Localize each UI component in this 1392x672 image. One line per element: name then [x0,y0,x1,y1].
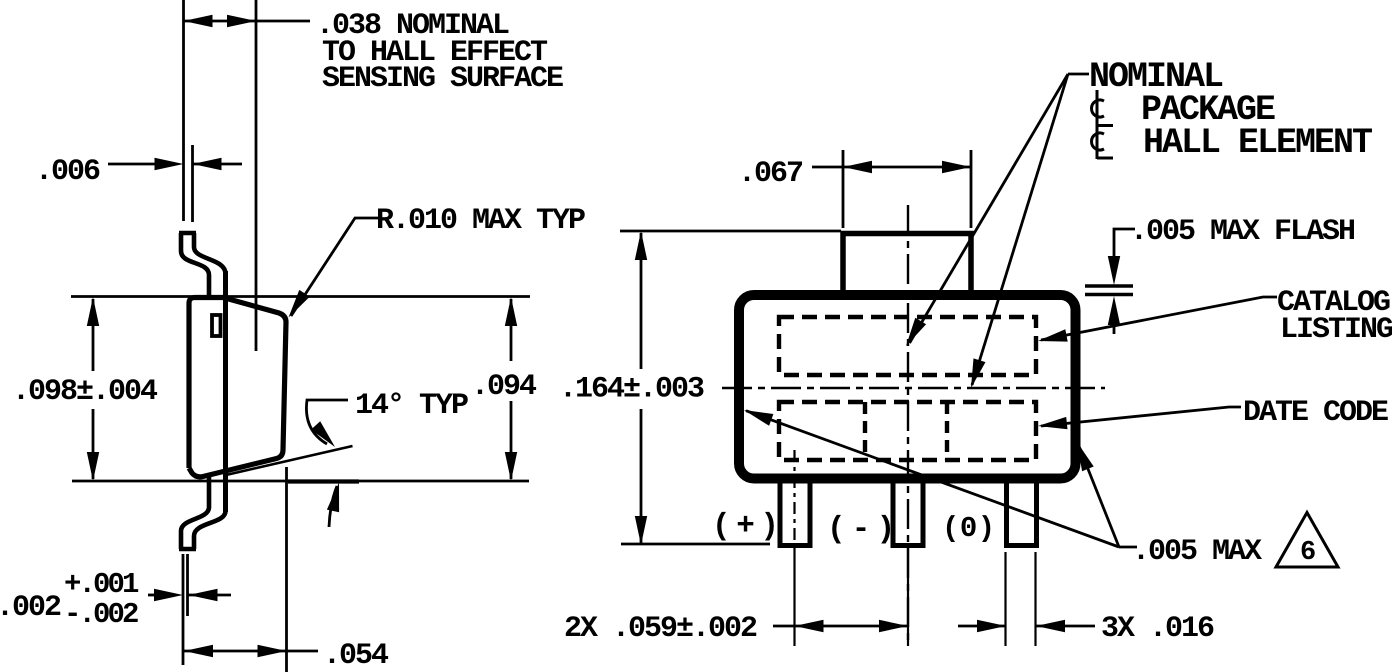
svg-text:HALL ELEMENT: HALL ELEMENT [1143,123,1372,163]
dimension line .038 [184,20,311,23]
arrowhead .006 right [193,158,222,170]
extension lines .067 [843,150,971,228]
arrowhead 14deg upper [311,421,335,447]
centerline hall element horizontal [722,387,1105,389]
package body outline (front view) [739,295,1076,479]
dimension line .094 lower [510,401,513,479]
arrowhead flash up [1108,296,1120,334]
arrowhead .005 left edge [744,410,773,426]
arrowhead .098 bottom [87,452,99,481]
leader catalog [1041,297,1277,340]
svg-text:2X .059±.002: 2X .059±.002 [564,612,757,646]
date code dashed box [779,402,1036,460]
dimension line .098 upper [92,299,95,371]
leader .005 junction [1119,546,1137,549]
arrowhead R.010 [289,290,310,318]
leader .005 to right corner [1079,445,1120,547]
extension line: lead left edge (top) [182,0,185,221]
svg-text:.067: .067 [738,157,802,191]
centerline symbol 1 [1092,90,1113,126]
lead bottom cap [179,547,196,552]
extension line lead right edge (bottom) [186,554,189,616]
package body outline (side view) [189,298,286,477]
arrowhead .164 top [635,231,647,260]
arrowhead .054 left [184,645,213,657]
extension line lead bottom [621,543,770,546]
svg-text:.005 MAX FLASH: .005 MAX FLASH [1130,215,1354,249]
extension line: hall sensing plane [255,0,258,351]
arrowhead 2X left [795,620,824,632]
dimension line 3X left tail [958,625,1006,628]
svg-text:.054: .054 [323,639,389,672]
dimension line .054 [184,650,318,653]
date code divider 2 [945,402,949,460]
lead top cap [179,231,196,236]
extension line: lead right edge (.006) [191,145,194,222]
dimension line 2X [795,625,909,628]
hall element marker rect [212,315,221,336]
svg-text:DATE CODE: DATE CODE [1243,396,1388,430]
lead top outer edge [181,233,209,300]
lead 2 (-) [893,481,923,546]
arrowhead .098 top [87,297,99,326]
extension line body bottom / seating [72,480,529,483]
lead 3 extension lines [1006,552,1036,646]
dimension line .098 lower [92,409,95,479]
svg-text:.098±.004: .098±.004 [12,375,158,409]
centerline package vertical [907,205,909,646]
mounting tab [843,234,971,292]
arrowhead .038 right [227,15,256,27]
arrowhead date code [1038,417,1068,429]
line 14deg face extension [226,446,353,475]
dimension line .006 right tail [193,163,243,166]
svg-text:.002: .002 [0,591,61,625]
arrowhead .002 left [154,589,183,601]
svg-text:.006: .006 [35,155,100,189]
arrowhead .094 bottom [505,452,517,481]
dimension line .164 lower [640,409,643,543]
arrowhead .006 left [155,158,184,170]
svg-text:(0): (0) [942,512,996,545]
svg-text:LISTING: LISTING [1280,313,1392,347]
svg-text:+.001: +.001 [64,568,139,601]
leader arc 14deg lower [329,486,337,527]
lead bottom outer edge [181,477,209,549]
dimension line .067 [812,166,971,169]
arrowhead flash down [1108,256,1120,285]
lead 1 centerline [793,450,795,646]
leader .005 to left edge [746,411,1119,547]
arrowhead 2X right [879,620,908,632]
lead 3 (0) [1007,481,1037,546]
arrowhead 14deg lower [327,483,339,513]
extension line body top [71,295,530,298]
extension line lead left edge (bottom) [182,554,185,665]
arrowhead .094 top [505,297,517,326]
dimension line 2X tail [773,625,795,628]
dimension line .006 left [108,163,156,166]
arrowhead .067 right [942,161,971,173]
arrowhead hall centerline [971,358,986,388]
arrowhead 3X left [977,620,1006,632]
arrowhead catalog [1038,329,1068,341]
dimension line 3X right tail [1036,625,1095,628]
arrowhead .164 bottom [635,516,647,545]
svg-text:( - ): ( - ) [827,512,891,547]
arrowhead .002 right [189,589,218,601]
arrowhead .054 right [258,645,287,657]
dimension line .164 upper [640,233,643,369]
centerline symbol 2 [1092,123,1113,159]
extension line tab top [620,230,841,233]
svg-text:SENSING SURFACE: SENSING SURFACE [322,62,563,96]
label .038 NOMINAL [316,9,563,96]
label .002 tolerance [0,568,139,631]
lead bottom inner edge [194,511,226,549]
flag triangle 6 [1276,513,1338,569]
leader NOMINAL junction [1068,73,1089,76]
extension line body right corner (bottom) [285,467,288,672]
lead 2 centerline extension [907,545,909,646]
leader NOMINAL to hall centerline [972,74,1068,385]
leader R.010 [291,218,378,316]
svg-text:-.002: -.002 [64,598,138,631]
dimension line .002 left [148,594,157,597]
arrowhead .067 left [843,161,872,173]
svg-text:.005 MAX: .005 MAX [1132,535,1262,569]
flash lines [1085,286,1133,295]
svg-text:3X .016: 3X .016 [1101,612,1214,646]
svg-text:( + ): ( + ) [712,509,774,544]
leader flash bracket [1114,229,1135,260]
arrowhead package centerline [906,318,926,346]
svg-text:.094: .094 [471,370,537,404]
arrowhead .005 right corner [1077,442,1094,471]
lead top inner edge [194,233,226,274]
svg-text:R.010 MAX TYP: R.010 MAX TYP [376,204,585,238]
label CATALOG LISTING [1277,286,1392,347]
catalog listing dashed box [779,317,1036,375]
dimension line .094 upper [510,299,513,361]
dimension line .002 right tail [189,594,232,597]
svg-text:14° TYP: 14° TYP [355,389,468,423]
leader arc 14deg upper [306,400,348,444]
lead edge through body [223,271,228,512]
svg-text:6: 6 [1300,538,1316,568]
date code divider 1 [863,402,867,460]
arrowhead 3X right [1036,620,1065,632]
arrowhead .038 left [184,15,213,28]
leader date code [1041,407,1241,426]
svg-text:.164±.003: .164±.003 [559,373,704,407]
leader NOMINAL to package centerline [910,74,1069,343]
lead 1 (+) [780,481,810,546]
